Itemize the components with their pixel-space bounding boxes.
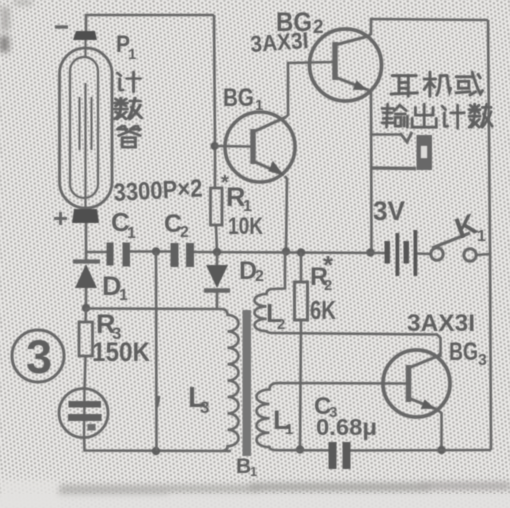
tube P1 top cap: [73, 31, 97, 40]
wire: BG3 emitter to bottom bus: [436, 409, 442, 450]
svg-text:1: 1: [255, 97, 263, 114]
wire: L2 top feed from emitter node: [272, 252, 285, 289]
svg-text:2: 2: [277, 316, 285, 333]
wire: battery to switch: [417, 252, 431, 255]
hanzi JI (machine): [424, 72, 450, 96]
wire: jack bottom lead: [372, 166, 417, 170]
wire: earphone to bottom bus corner: [84, 437, 231, 451]
node: bus x156: [152, 247, 160, 255]
svg-text:0.68μ: 0.68μ: [316, 414, 377, 440]
figure number circle 3: [12, 330, 64, 382]
svg-text:6K: 6K: [310, 295, 336, 325]
diode D2: [204, 252, 230, 309]
svg-text:1: 1: [127, 225, 136, 242]
hanzi SHU2 (number): [469, 104, 492, 127]
wire: bus C1 to C2: [130, 250, 171, 253]
inductor L3 (transformer primary): [222, 309, 239, 451]
scan tick near L3: [157, 396, 159, 407]
wire: R1 bottom to bus: [216, 225, 217, 252]
wire: R3 to earphone: [85, 356, 86, 390]
node: bus R1/D2: [213, 248, 221, 256]
hanzi GUAN (tube): [117, 126, 140, 147]
tube P1 bottom cap: [72, 209, 99, 223]
node: R2 line on bottom bus: [296, 445, 304, 453]
svg-text:1: 1: [477, 228, 486, 245]
node: BG1 emitter on bus: [282, 247, 290, 255]
node: D1 anode junction: [82, 304, 90, 312]
wire: top rail from tube to BG1 branch: [86, 15, 214, 31]
svg-text:3V: 3V: [373, 196, 405, 226]
hanzi SHU (number): [114, 98, 141, 119]
switch K1 arm: [432, 233, 470, 248]
svg-text:1: 1: [128, 46, 136, 63]
wire: bus C2 to battery: [194, 252, 385, 253]
svg-text:3: 3: [478, 352, 487, 369]
svg-text:B: B: [236, 455, 251, 478]
transistor BG3: [383, 350, 450, 417]
svg-text:1: 1: [250, 464, 257, 479]
svg-text:1: 1: [119, 287, 128, 304]
connector jack (earphone output): [417, 135, 433, 170]
minus terminal mark: [55, 25, 68, 28]
svg-text:3: 3: [200, 398, 209, 417]
svg-text:150K: 150K: [92, 337, 150, 367]
arrow head at jack: [400, 132, 412, 142]
battery 3V: [385, 230, 418, 276]
wire: arrow branch to jack: [371, 133, 401, 136]
svg-text:3AX3I: 3AX3I: [407, 310, 475, 337]
wire: BG1 collector up to BG2 base: [286, 62, 333, 117]
resistor R3: [79, 322, 93, 356]
svg-text:2: 2: [255, 268, 264, 285]
wire: BG2 collector to top-right rail: [368, 19, 488, 36]
wire: R3 feed: [84, 308, 87, 322]
wire: bottom bus right segment: [277, 449, 330, 452]
hanzi ER (ear): [391, 76, 417, 97]
wire: BG1 emitter down to bus: [285, 176, 287, 251]
hanzi JI (count): [117, 72, 140, 92]
resistor R1: [211, 188, 223, 225]
wire: right rail switch to bottom-right corner: [490, 253, 491, 450]
capacitor C1: [107, 243, 131, 267]
wire: R2 bottom to bottom bus: [300, 320, 301, 449]
wire: R2 top: [300, 252, 303, 282]
wire: switch to right rail: [477, 254, 491, 255]
resistor R2: [295, 282, 308, 320]
wire: D1 node to L3 top: [86, 307, 222, 310]
tube P1 (counter tube): [60, 40, 113, 210]
left edge smudge: [0, 36, 9, 52]
hanzi HUO (or): [456, 72, 482, 95]
transistor BG1: [225, 112, 295, 182]
wire: BG1 base lead: [215, 145, 252, 148]
capacitor C3: [329, 442, 351, 469]
node: BG1 base junction: [211, 142, 219, 150]
wire: vertical feed to BG1 base and R1: [214, 15, 215, 188]
node: bus R2: [297, 248, 305, 256]
plus terminal mark: [54, 212, 67, 225]
wire: BG3 collector diagonal stub: [438, 353, 441, 356]
hanzi CHU (out): [412, 104, 436, 127]
svg-text:*: *: [323, 250, 334, 280]
svg-text:10K: 10K: [228, 213, 264, 240]
wire: L2 bottom to BG3 collector: [272, 333, 441, 357]
diode D1: [73, 252, 100, 308]
transistor BG2: [310, 29, 382, 101]
svg-text:3: 3: [26, 330, 52, 383]
wire: BG2 emitter down to bus: [367, 89, 372, 252]
svg-text:2: 2: [313, 17, 324, 38]
wire: vertical x156 bus-to-bus: [155, 252, 158, 452]
node: BG3 emitter on bus: [437, 446, 445, 454]
earphone (circle with plates): [59, 389, 108, 438]
svg-text:BG: BG: [449, 338, 478, 366]
switch K1 contacts: [431, 248, 443, 260]
hanzi JI2 (count): [442, 105, 464, 128]
hanzi SHU (output-transport): [382, 104, 407, 127]
wire: right rail down to switch: [488, 20, 490, 253]
svg-text:2: 2: [180, 224, 189, 241]
svg-text:3300P×2: 3300P×2: [113, 174, 203, 207]
node: emitter line to battery bus: [366, 248, 374, 256]
inductor L2: [255, 289, 273, 333]
wire: main bus left segment: [86, 223, 107, 252]
node: bottom bus x156: [152, 447, 160, 455]
svg-text:*: *: [221, 172, 229, 194]
bottom page margin (lighter): [0, 494, 510, 508]
transformer core B1: [243, 310, 252, 456]
svg-text:3AX3I: 3AX3I: [250, 27, 310, 57]
svg-text:BG: BG: [223, 84, 254, 112]
svg-text:1: 1: [285, 421, 293, 438]
capacitor C2: [171, 243, 195, 267]
inductor L1: [257, 383, 407, 450]
